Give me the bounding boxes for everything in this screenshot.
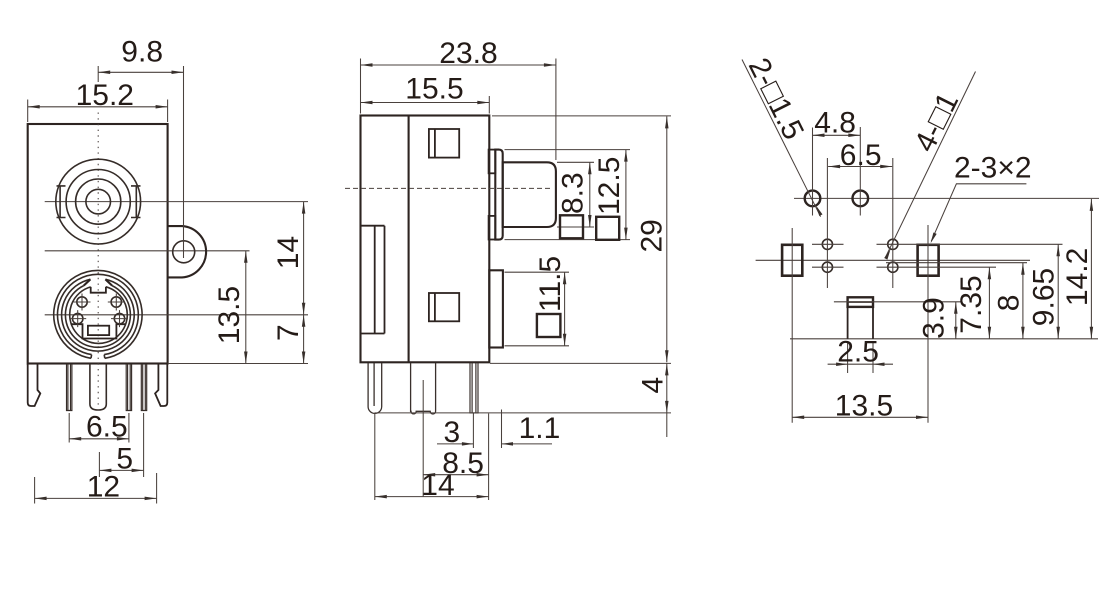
RCA jack horizontal centerline — [45, 201, 308, 203]
left slot vertical centerline — [791, 228, 793, 423]
DIN pin 4 — [114, 313, 124, 323]
dim 13.5 right view — [792, 416, 928, 418]
main horizontal centerline — [756, 259, 1030, 261]
dim 4 — [490, 362, 671, 364]
mounting tab hole — [173, 241, 195, 263]
round hole 2 — [853, 191, 869, 207]
dim 15.5 — [488, 96, 490, 114]
dim 12 — [34, 477, 36, 504]
left leg (side) — [368, 363, 382, 413]
dim 23.8 — [360, 59, 362, 114]
square symbol 11.5 — [537, 314, 561, 337]
svg-text:6.5: 6.5 — [86, 411, 128, 444]
leader 4-sq1 — [885, 72, 975, 258]
square symbol 12.5 — [596, 217, 619, 240]
svg-text:14: 14 — [272, 236, 305, 269]
svg-text:14.2: 14.2 — [1061, 248, 1094, 306]
left holes column centerline — [826, 158, 828, 288]
DIN shell inner arc r40.4 with bottom gap — [57, 274, 138, 354]
DIN shell gap end caps — [91, 355, 105, 359]
right slot 3x2 — [918, 245, 939, 276]
right bracket leg — [155, 364, 167, 406]
svg-text:23.8: 23.8 — [439, 37, 497, 70]
dim 8.3 — [557, 161, 594, 163]
DIN shield outer arc r36.3 (gap at top 258-282) — [62, 279, 135, 351]
svg-text:2-□1.5: 2-□1.5 — [742, 53, 810, 145]
svg-text:9.8: 9.8 — [121, 36, 163, 69]
svg-text:1.1: 1.1 — [519, 412, 561, 445]
8 extension line — [886, 262, 1027, 264]
dim 5 — [98, 452, 100, 477]
dim 14 — [303, 202, 305, 315]
svg-text:12.5: 12.5 — [593, 157, 626, 215]
svg-text:15.2: 15.2 — [76, 79, 134, 112]
barrel collar bottom tab — [489, 216, 496, 240]
dim 29 — [492, 115, 671, 117]
svg-text:4.8: 4.8 — [814, 107, 856, 140]
svg-text:13.5: 13.5 — [835, 390, 893, 423]
RCA jack ring 3 — [76, 179, 121, 224]
bottom square detail — [429, 293, 459, 321]
square hole upper-left — [822, 239, 832, 249]
vertical dotted centerline — [97, 113, 99, 408]
dim 12.5 — [505, 149, 631, 151]
dim 3.9 — [955, 302, 957, 339]
DIN pin lead 1 — [67, 364, 72, 411]
dim 14 bottom — [374, 414, 376, 501]
dim 2.5 — [847, 342, 849, 373]
3.9 extension line — [834, 301, 961, 303]
svg-text:2-3×2: 2-3×2 — [954, 151, 1032, 184]
DIN pin 2 — [111, 297, 121, 307]
RCA center pin lead — [90, 364, 106, 410]
hole 2 vertical centerline — [859, 127, 861, 216]
dim 7 — [168, 363, 308, 365]
square hole upper-right — [888, 239, 898, 249]
dim 11.5 — [505, 271, 570, 273]
svg-text:11.5: 11.5 — [534, 256, 567, 312]
RCA center pin (side) — [411, 363, 436, 414]
body outline — [28, 124, 168, 364]
dim 7.35 — [988, 267, 990, 339]
DIN shield protrusion — [489, 270, 503, 347]
svg-text:13.5: 13.5 — [213, 286, 246, 344]
svg-text:12: 12 — [87, 470, 120, 503]
dashed horizontal centerline — [345, 187, 553, 189]
bottom reference line — [790, 338, 1098, 340]
dim 9.65 — [1057, 244, 1059, 338]
DIN pin 1 — [77, 297, 87, 307]
svg-text:7.35: 7.35 — [955, 275, 988, 333]
flange/body divider — [408, 116, 410, 363]
dim 4.8 — [813, 134, 861, 136]
dim 6.5 right view — [828, 166, 892, 168]
DIN pin lead 2 — [126, 364, 131, 411]
svg-text:8.3: 8.3 — [557, 172, 590, 214]
center pin stub cap — [848, 297, 873, 307]
center pin stub sides — [848, 307, 873, 339]
DIN outer shell arc r44.2 with bottom gap — [54, 270, 142, 358]
square hole lower-left — [822, 262, 832, 272]
dim 9.8 — [97, 66, 99, 82]
square symbol 8.3 — [560, 215, 583, 238]
RCA left flat notch — [57, 186, 66, 218]
svg-text:4-□1: 4-□1 — [908, 87, 965, 157]
9.65 extension line through upper-right hole — [877, 243, 1063, 245]
svg-text:29: 29 — [636, 219, 669, 252]
svg-text:14: 14 — [421, 469, 454, 502]
7.35 extension line through lower-right hole — [877, 266, 997, 268]
svg-text:9.65: 9.65 — [1028, 268, 1061, 326]
mounting-tab hole centerline — [45, 250, 250, 252]
DIN shield slanted end caps (arms) — [84, 279, 112, 285]
hole 1 vertical centerline — [812, 128, 814, 216]
RCA jack center hole — [86, 189, 111, 214]
DIN top keyway notch — [91, 287, 106, 293]
leader 2-3x2 — [931, 184, 1026, 242]
RCA pin centerline extension — [422, 380, 424, 497]
svg-text:3.9: 3.9 — [918, 297, 951, 339]
DIN face circle r28.8 with top notch gap — [70, 287, 128, 344]
svg-text:3: 3 — [444, 416, 461, 449]
svg-text:15.5: 15.5 — [405, 73, 463, 106]
RCA right flat notch — [131, 186, 141, 218]
svg-text:7: 7 — [272, 324, 305, 341]
flange slot detail — [361, 226, 385, 334]
S-video DIN horizontal centerline — [45, 314, 308, 316]
top holes row line — [794, 197, 1099, 199]
DIN pin lead 3 — [141, 364, 146, 411]
dim 13.5 — [245, 251, 247, 364]
RCA barrel collar — [495, 150, 502, 240]
left holes cross ticks — [812, 243, 844, 245]
round hole 1 — [805, 191, 821, 207]
body outline — [361, 116, 490, 363]
barrel collar top tab — [489, 150, 496, 174]
dim 14.2 — [1090, 199, 1092, 339]
dim 6.5 bottom — [68, 413, 70, 443]
left bracket leg — [28, 364, 41, 406]
square hole lower-right — [888, 262, 898, 272]
RCA jack outer circle — [56, 159, 141, 244]
leader 2-sq1.5 — [742, 60, 821, 217]
RCA jack ring 2 — [66, 170, 130, 234]
right holes column centerline — [892, 158, 894, 288]
top square detail — [429, 129, 459, 158]
dim 8 — [1022, 263, 1024, 339]
svg-text:4: 4 — [636, 377, 669, 394]
svg-text:2.5: 2.5 — [837, 336, 879, 369]
mounting tab outline — [168, 226, 206, 277]
RCA barrel — [503, 162, 556, 227]
DIN key slot rectangle — [88, 326, 109, 335]
DIN shield inner arc r32.5 (gap at top 244-296) — [65, 286, 130, 348]
dim 8.5 — [488, 414, 490, 501]
dim 15.2 — [27, 100, 29, 123]
svg-text:8: 8 — [993, 295, 1026, 312]
left slot 3x2 — [782, 245, 802, 276]
DIN pin 3 — [73, 313, 83, 323]
DIN pin (side) — [470, 363, 478, 413]
svg-text:6.5: 6.5 — [840, 139, 882, 172]
dim 3 — [472, 414, 474, 449]
DIN bottom step — [71, 324, 125, 338]
right slot vertical centerline — [927, 225, 929, 423]
